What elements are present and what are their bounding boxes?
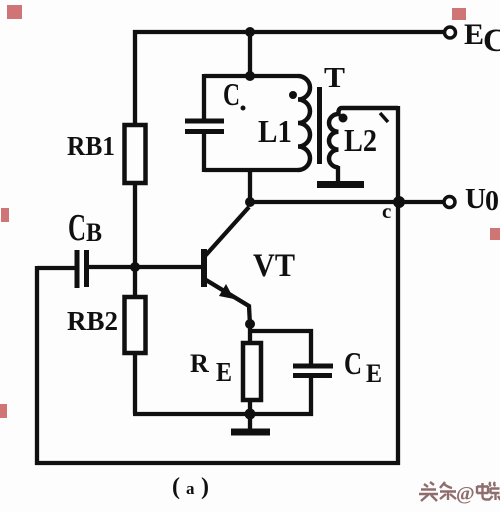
glyph 巢 [489,482,500,500]
transistor VT base bar [201,249,207,287]
ground bar below RE [231,429,270,436]
junction node collector [245,197,255,207]
wire tank top [204,74,298,78]
watermark 头条@电巢 [419,482,456,501]
svg-text:@: @ [456,483,475,505]
wire base [89,265,202,269]
svg-text:R: R [190,349,209,378]
red marker square right-middle [490,228,500,240]
inductor L1 coil [298,76,310,170]
junction node top rail [245,27,255,37]
wire RE bottom stem [248,400,252,416]
svg-text:(: ( [172,474,180,500]
resistor RE body [243,343,261,400]
wire collector rail to output [248,200,444,204]
red marker square top-left [7,5,22,19]
svg-text:U: U [465,183,486,215]
svg-text:C: C [344,345,362,381]
capacitor C plates [185,121,224,132]
junction node output [393,196,405,208]
capacitor CE plates [293,366,333,376]
wire left outer vertical [35,266,39,465]
svg-text:a: a [186,479,195,498]
svg-text:): ) [201,474,209,500]
wire left branch vertical to RB1 [133,30,137,126]
inductor L2 top wire and coil [329,108,398,167]
wire L2 bottom stem [336,166,340,183]
svg-text:0: 0 [485,186,499,217]
resistor RB2 body [125,297,146,353]
dot after C label [241,106,246,111]
transistor VT emitter lead [206,280,250,325]
transistor VT collector lead [205,207,249,256]
junction node emitter [245,319,255,329]
red marker square left-middle [1,208,9,222]
wire tank left lower [202,134,206,172]
wire base node to RB2 [133,266,137,298]
wire tank bottom [204,168,298,172]
svg-text:L2: L2 [344,122,377,158]
svg-text:C: C [223,76,240,112]
svg-text:L1: L1 [258,113,292,149]
svg-text:E: E [216,357,232,387]
glyph 电 [477,483,490,500]
glyph 条 [440,482,456,500]
svg-text:RB1: RB1 [67,131,115,161]
red marker square top-right [452,8,466,20]
wire tank left upper [202,74,206,119]
glyph 头 [419,482,438,501]
svg-text:C: C [68,207,86,249]
phase dot L1 [289,91,297,99]
wire top supply rail [133,30,444,34]
wire tank bottom stem to collector rail [248,170,252,203]
wire CE branch lower [309,377,313,416]
resistor RB1 body [125,125,146,183]
wire RB2 bottom stem [133,352,137,414]
wire CB left [37,266,76,270]
svg-text:T: T [324,63,345,94]
wire feed stem from rail to tank top [248,32,252,77]
svg-text:c: c [382,199,391,223]
red marker square left-bottom [0,404,7,418]
wire emitter node to RE top [248,324,252,343]
junction node base [130,262,140,272]
stray tick mark right of L2 [380,113,388,122]
wire right outer vertical [396,106,400,465]
terminal EC [445,27,456,38]
capacitor CB plates [77,250,87,288]
junction node tank top [245,71,255,81]
transistor VT emitter arrowhead [219,284,234,299]
wire inner bottom [133,412,313,416]
svg-text:RB2: RB2 [67,306,118,336]
ground stem below RE [248,414,252,430]
wire CE branch upper [309,329,313,364]
svg-text:E: E [366,359,382,388]
transformer T core [317,87,322,164]
wire RB1 to base node [133,182,137,268]
terminal U0 [444,197,455,208]
phase dot L2 [339,114,348,123]
svg-text:VT: VT [253,248,295,284]
wire emitter node to CE branch [248,329,313,333]
junction node ground [245,409,256,420]
ground bar below L2 [317,181,364,188]
wire bottom outer [35,461,400,465]
svg-text:E: E [464,18,484,51]
svg-text:C: C [483,23,500,59]
svg-text:B: B [86,218,102,247]
